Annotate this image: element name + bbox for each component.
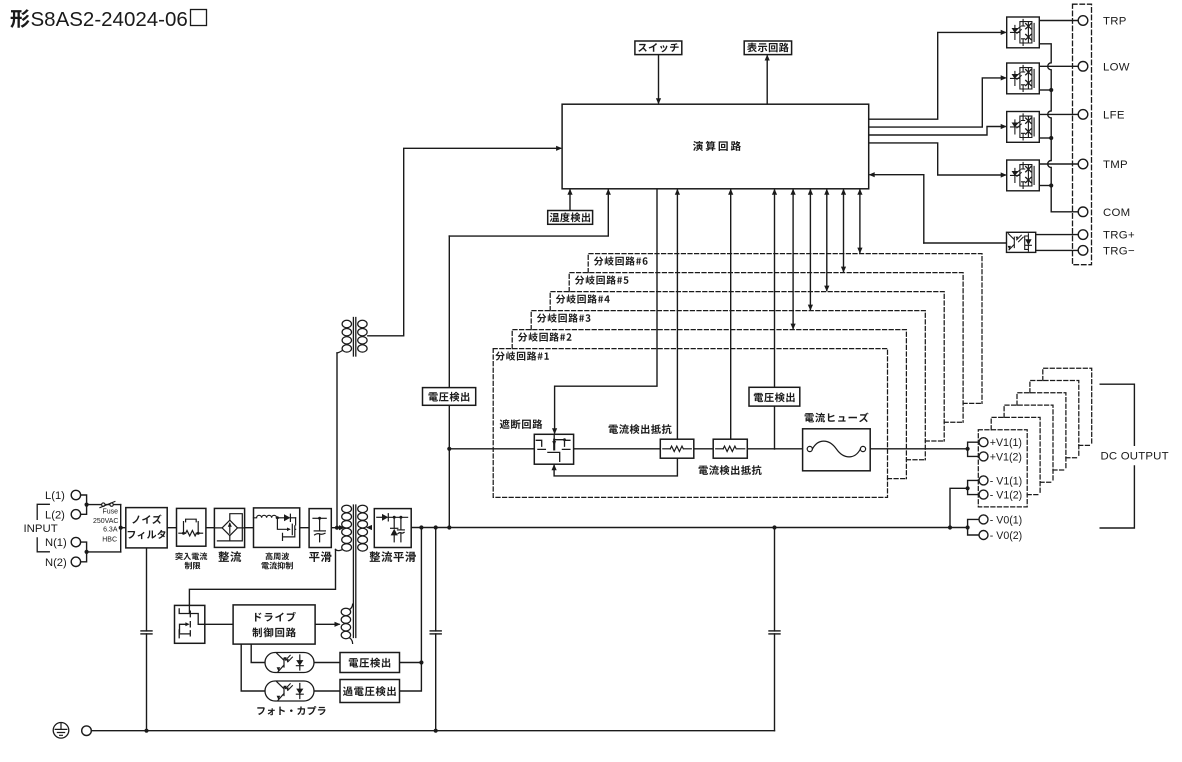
svg-text:S8AS2-24024-06: S8AS2-24024-06 [31, 8, 188, 31]
output group box #5 (dashed, partially hidden) [1030, 381, 1079, 458]
wire coupler to TMP [1039, 163, 1078, 165]
arrow branch #6 into CPU [857, 189, 862, 195]
junction COM bus 3 [1049, 183, 1053, 187]
terminal LOW [1078, 61, 1130, 73]
noise filter box ノイズフィルタ [126, 508, 167, 548]
label フォト・カプラ [257, 706, 325, 715]
arrow TRG into CPU [869, 172, 875, 177]
arrow into branch #2 [791, 324, 796, 330]
svg-text:HBC: HBC [102, 537, 117, 544]
arrow into branch #4 [824, 286, 829, 292]
voltage detect box 電圧検出 (left) [423, 388, 476, 406]
svg-text:LOW: LOW [1103, 61, 1130, 73]
wire L(1)/L(2) to fuse [81, 495, 87, 514]
arrow branch #3 into CPU [808, 189, 813, 195]
photocoupler input block (TRG) [1007, 232, 1036, 252]
INPUT bracket lower [37, 538, 49, 552]
transformer T1 primary winding [336, 505, 352, 551]
label 電流検出抵抗 (R2) [699, 465, 762, 475]
wire +V1 elbows [968, 442, 979, 456]
terminal L(1) [45, 490, 81, 502]
DC OUTPUT bracket [1100, 384, 1134, 528]
wire current sense 1 drop [676, 189, 678, 439]
voltage detect box 電圧検出 (drive) [340, 653, 400, 673]
wire N(1)/N(2) [81, 542, 87, 562]
wire rectifier to rail [410, 527, 412, 529]
wire mid capacitor leg [435, 528, 437, 731]
arrow temp into CPU [567, 189, 572, 195]
wire CPU to LFE coupler [869, 127, 1005, 136]
label 分岐回路#3 [537, 313, 591, 322]
output group box #3 (dashed, partially hidden) [1004, 405, 1053, 482]
wire into noise filter [121, 527, 126, 529]
wire TRG- link [1036, 249, 1079, 251]
terminal TRG+ [1078, 230, 1135, 242]
wire CPU to TRP coupler [869, 32, 1005, 119]
overvoltage detect box 過電圧検出 [340, 680, 400, 703]
smoothing box 平滑 [309, 509, 331, 548]
wire COM bus [1039, 44, 1078, 212]
wire ground rail riser [774, 528, 776, 731]
suppressor box 高周波電流抑制 [254, 508, 300, 548]
terminal TRG− [1078, 246, 1135, 258]
arrow into transformer primary [339, 525, 345, 530]
wire aux winding drop [336, 353, 338, 528]
inrush limiter box 突入電流制限 [177, 508, 206, 546]
display circuit box 表示回路 [744, 41, 791, 55]
terminal TRP [1078, 16, 1126, 28]
svg-text:- V1(2): - V1(2) [990, 490, 1022, 502]
arrow into secondary winding [366, 525, 372, 530]
photocoupler output block (LOW) [1007, 63, 1040, 94]
drive winding on T1 [341, 604, 352, 643]
junction detect riser [419, 660, 423, 664]
label 電流検出抵抗 (R1) [609, 424, 672, 434]
wire gate drive drop [555, 189, 657, 433]
arrow bvs into CPU [772, 189, 777, 195]
capacitor C1 ticks [141, 631, 152, 634]
wire LFE coupler lower tap [1039, 137, 1051, 139]
wire -V1 elbows [968, 480, 979, 494]
title 形S8AS2-24024-06□ [10, 8, 206, 31]
wire DC rail [411, 527, 967, 529]
arrow into branch #5 [841, 267, 846, 273]
arrow into CPU left [556, 146, 562, 151]
arrow feedback into cutoff [552, 464, 557, 470]
capacitor C2 ticks [430, 631, 441, 634]
wire switch to CPU [658, 55, 660, 103]
junction mid leg top [434, 525, 438, 529]
wire sense top link [449, 189, 608, 236]
wire voltage sense riser [448, 236, 450, 527]
arrow into TMP coupler [1001, 172, 1007, 177]
svg-text:6.3A: 6.3A [103, 527, 118, 534]
aux transformer T2 left winding [337, 320, 351, 353]
svg-text:250VAC: 250VAC [93, 518, 119, 525]
wire filter to inrush [167, 527, 176, 529]
arrow switch into CPU [656, 98, 661, 104]
terminal PE [82, 726, 92, 736]
photocoupler output block (TMP) [1007, 160, 1040, 191]
label 整流平滑 [370, 551, 416, 562]
junction COM bus 2 [1049, 136, 1053, 140]
svg-text:LFE: LFE [1103, 110, 1125, 122]
wire pc2 to overvoltage detect [314, 690, 340, 692]
svg-text:TRG+: TRG+ [1103, 230, 1135, 242]
svg-text:- V1(1): - V1(1) [990, 475, 1022, 487]
wire CPU to LOW coupler [869, 78, 1005, 127]
transformer T1 core [353, 505, 355, 638]
terminal +V1(2) [979, 451, 1022, 463]
arrow cs2 into CPU [728, 189, 733, 195]
label Fuse rating [93, 509, 119, 544]
wire cutoff feedback [554, 458, 677, 476]
label 分岐回路#6 [594, 256, 648, 265]
terminal - V1(2) [979, 490, 1022, 502]
wire rectifier to suppressor [245, 527, 254, 529]
wire branch #4 control drop [826, 189, 828, 291]
wire bottom ground rail [91, 730, 774, 732]
branch circuit box 分岐回路#3 (dashed, partially hidden) [531, 311, 925, 460]
label INPUT [24, 523, 58, 535]
junction -V0 [966, 525, 970, 529]
terminal - V1(1) [979, 475, 1022, 487]
wire drive to aux winding [315, 623, 339, 625]
arrow into branch #3 [808, 305, 813, 311]
arrow into display box [765, 55, 770, 61]
arrow into branch #6 [857, 248, 862, 254]
junction detect riser top [419, 525, 423, 529]
wire fuse right drop [120, 505, 122, 552]
wire TMP coupler lower tap [1039, 185, 1051, 187]
arrow sense into CPU [606, 189, 611, 195]
terminal L(2) [45, 509, 81, 521]
current sense resistor box R2 [713, 439, 747, 458]
wire drive to photocoupler 2 [241, 644, 265, 691]
wire TRG+ link [1036, 234, 1079, 236]
wire branch #5 control drop [843, 189, 845, 272]
current sense resistor box R1 [660, 439, 694, 458]
junction filter tap [119, 526, 123, 530]
terminal TMP [1078, 159, 1128, 171]
branch circuit box 分岐回路#6 (dashed, partially hidden) [588, 254, 982, 404]
temperature detect box 温度検出 [548, 211, 593, 225]
svg-text:- V0(2): - V0(2) [990, 530, 1022, 542]
wire coupler to LOW [1039, 65, 1078, 67]
photocoupler output block (TRP) [1007, 17, 1040, 48]
wire branch voltage sense drop [774, 189, 776, 449]
junction L [85, 503, 89, 507]
label 分岐回路#2 [518, 332, 572, 341]
wire CPU to TMP coupler [869, 143, 1005, 175]
cutoff circuit box 遮断回路 [534, 434, 573, 464]
arrow branch #5 into CPU [841, 189, 846, 195]
fuse F1 symbol [100, 502, 115, 508]
output group box #6 (dashed, partially hidden) [1043, 368, 1092, 445]
label 分岐回路#1 [495, 351, 549, 360]
wire voltage detect to riser [400, 662, 422, 664]
wire CPU to display [766, 56, 768, 104]
wire MOSFET to drive box [205, 623, 233, 625]
wire TRG coupler feed [924, 242, 1007, 244]
label DC OUTPUT [1101, 451, 1169, 463]
photocoupler output block (LFE) [1007, 112, 1040, 143]
branch circuit box 分岐回路#1 (dashed) [493, 349, 887, 498]
junction sense/rail [447, 525, 451, 529]
svg-text:+V1(1): +V1(1) [990, 437, 1022, 449]
aux transformer T2 right winding [358, 320, 367, 352]
wire detect riser [420, 528, 422, 663]
wire ground terminal [91, 730, 96, 732]
current fuse box 電流ヒューズ [803, 429, 871, 471]
svg-text:- V0(1): - V0(1) [990, 514, 1022, 526]
operation circuit 演算回路 box [562, 104, 869, 189]
junction bottom rail left [144, 729, 148, 733]
label 高周波電流抑制 [261, 552, 292, 569]
branch circuit box 分岐回路#2 (dashed, partially hidden) [512, 330, 906, 479]
svg-text:N(2): N(2) [45, 557, 67, 569]
wire aux to CPU [368, 148, 561, 335]
photocoupler PC1 [265, 653, 314, 673]
wire coupler to LFE [1039, 113, 1078, 115]
svg-text:L(2): L(2) [45, 509, 65, 521]
arrow into TRP coupler [1001, 30, 1007, 35]
voltage detect box 電圧検出 (branch) [749, 387, 800, 406]
wire branch #3 control drop [809, 189, 811, 310]
wire fuse line L [87, 504, 121, 506]
capacitor C3 ticks [769, 631, 780, 634]
svg-text:TRP: TRP [1103, 16, 1127, 28]
junction +V1 [966, 447, 970, 451]
junction branch feed [447, 447, 451, 451]
svg-text:Fuse: Fuse [102, 509, 118, 516]
terminal - V0(1) [979, 514, 1022, 526]
wire N to filter [87, 551, 121, 553]
wire temperature sense [569, 189, 571, 211]
INPUT bracket upper [37, 504, 49, 519]
drive control box ドライブ制御回路 [233, 605, 315, 644]
terminal strip (dashed) [1073, 4, 1092, 265]
arrow branch #4 into CPU [824, 189, 829, 195]
wire pc1 to voltage detect [314, 662, 340, 664]
terminal N(2) [45, 557, 81, 569]
arrow into LFE coupler [1001, 124, 1007, 129]
wire current sense 2 drop [730, 189, 732, 439]
terminal +V1(1) [979, 437, 1022, 449]
protective earth symbol [53, 723, 69, 739]
transformer T1 secondary winding [358, 505, 368, 551]
label 分岐回路#4 [556, 294, 610, 303]
label 突入電流制限 [175, 552, 207, 569]
wire suppressor to smoothing [300, 527, 309, 529]
wire smoothing to transformer [331, 527, 339, 529]
junction N [85, 550, 89, 554]
label 平滑 [309, 551, 331, 562]
switch box スイッチ [635, 41, 682, 55]
junction COM bus 1 [1049, 88, 1053, 92]
wire branch #1 line [449, 448, 967, 450]
svg-text:N(1): N(1) [45, 537, 67, 549]
arrow into LOW coupler [1001, 75, 1007, 80]
wire branch #6 control drop [859, 189, 861, 253]
output group box #1 (dashed) [978, 430, 1027, 507]
svg-text:TRG−: TRG− [1103, 246, 1135, 258]
junction transformer tap [335, 526, 339, 530]
rectifier box 整流 [214, 508, 244, 547]
aux transformer T2 core [353, 318, 355, 357]
wire -V0 elbows [968, 519, 979, 535]
branch circuit box 分岐回路#5 (dashed, partially hidden) [569, 273, 963, 423]
terminal LFE [1078, 110, 1125, 122]
wire LOW coupler lower tap [1039, 89, 1051, 91]
arrow into cutoff circuit [552, 428, 557, 434]
photocoupler PC2 [265, 681, 314, 701]
arrow cs1 into CPU [675, 189, 680, 195]
label 整流 [218, 551, 241, 562]
svg-text:INPUT: INPUT [24, 523, 58, 535]
terminal - V0(2) [979, 530, 1022, 542]
wire -V1 feed [950, 488, 968, 527]
svg-text:TMP: TMP [1103, 159, 1128, 171]
branch circuit box 分岐回路#4 (dashed, partially hidden) [550, 292, 944, 441]
junction -V1 [966, 486, 970, 490]
junction -V1 rail [948, 525, 952, 529]
label 分岐回路#5 [575, 275, 629, 284]
terminal N(1) [45, 537, 81, 549]
junction rail riser [772, 525, 776, 529]
svg-text:+V1(2): +V1(2) [990, 451, 1022, 463]
svg-text:L(1): L(1) [45, 490, 65, 502]
junction mid leg bottom [434, 729, 438, 733]
label 電流ヒューズ [805, 413, 869, 423]
wire inrush to rectifier [206, 527, 215, 529]
wire drive to photocoupler 1 [251, 644, 265, 662]
wire overvoltage detect to riser [400, 663, 422, 692]
wire branch #2 control drop [792, 189, 794, 329]
arrow branch #2 into CPU [791, 189, 796, 195]
wire coupler to TRP [1039, 20, 1078, 22]
MOSFET Q1 box [175, 605, 205, 643]
wire TRG coupler to CPU [870, 175, 924, 243]
svg-text:DC OUTPUT: DC OUTPUT [1101, 451, 1169, 463]
arrow into drive winding [335, 622, 341, 627]
output group box #4 (dashed, partially hidden) [1017, 393, 1066, 470]
svg-text:COM: COM [1103, 207, 1130, 219]
terminal COM [1078, 207, 1130, 219]
output group box #2 (dashed, partially hidden) [991, 417, 1040, 494]
wire noise filter ground leg [146, 548, 148, 731]
wire primary to MOSFET Q1 [189, 550, 335, 606]
label 遮断回路 [500, 419, 543, 429]
rectifier-smoothing box 整流平滑 [374, 509, 411, 548]
